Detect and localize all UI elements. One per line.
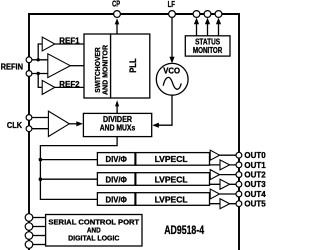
- svg-text:OUT2: OUT2: [244, 171, 266, 180]
- svg-text:OUT5: OUT5: [244, 200, 266, 209]
- svg-text:PLL: PLL: [128, 58, 139, 73]
- svg-text:DIV/Φ: DIV/Φ: [106, 155, 128, 164]
- svg-text:AD9518-4: AD9518-4: [164, 224, 204, 237]
- svg-text:OUT0: OUT0: [244, 151, 266, 160]
- svg-text:LF: LF: [168, 0, 175, 9]
- svg-text:REF1: REF1: [59, 35, 80, 45]
- svg-text:AND MONITOR: AND MONITOR: [100, 44, 109, 95]
- svg-text:LVPECL: LVPECL: [155, 175, 188, 184]
- svg-text:REF2: REF2: [59, 79, 80, 89]
- svg-text:LVPECL: LVPECL: [155, 155, 188, 164]
- svg-text:REFIN: REFIN: [1, 62, 23, 72]
- svg-text:VCO: VCO: [163, 65, 180, 75]
- svg-text:OUT4: OUT4: [244, 190, 266, 199]
- svg-text:CLK: CLK: [7, 120, 23, 130]
- svg-text:CP: CP: [112, 0, 120, 8]
- svg-text:DIV/Φ: DIV/Φ: [106, 195, 128, 204]
- svg-text:DIGITAL LOGIC: DIGITAL LOGIC: [68, 234, 120, 243]
- svg-text:MONITOR: MONITOR: [193, 46, 223, 55]
- svg-text:AND MUXs: AND MUXs: [100, 123, 136, 132]
- svg-text:OUT1: OUT1: [244, 161, 266, 170]
- svg-text:LVPECL: LVPECL: [155, 195, 188, 204]
- svg-text:OUT3: OUT3: [244, 180, 266, 189]
- svg-text:DIV/Φ: DIV/Φ: [106, 175, 128, 184]
